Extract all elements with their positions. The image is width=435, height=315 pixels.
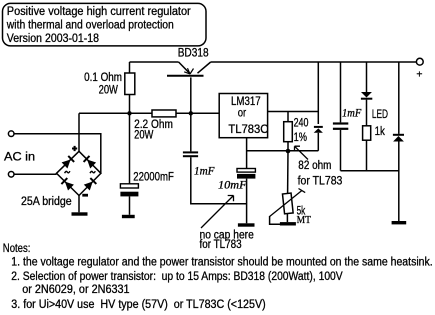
potentiometer P1 wiper wire	[270, 216, 287, 224]
label tilde right	[90, 171, 95, 173]
svg-text:1. the voltage regulator and t: 1. the voltage regulator and the power t…	[11, 254, 432, 268]
ground C2	[238, 223, 255, 226]
diode D3 output	[393, 62, 404, 221]
wire 22000mF branch	[129, 113, 131, 184]
resistor R3 240 lead bottom	[287, 142, 289, 151]
wire top rail left	[130, 61, 179, 63]
svg-text:20W: 20W	[134, 127, 154, 141]
resistor R3 240 lead top	[287, 112, 289, 122]
svg-text:or: or	[238, 105, 246, 119]
svg-text:1mF: 1mF	[194, 164, 215, 178]
arrow 82ohm pointer	[295, 146, 309, 159]
wire bottom rail	[341, 170, 399, 172]
wire adj line	[247, 150, 319, 152]
svg-text:22000mF: 22000mF	[133, 170, 174, 184]
svg-text:TL783C: TL783C	[228, 122, 268, 136]
svg-text:20W: 20W	[99, 83, 119, 97]
ground C1	[122, 215, 135, 218]
svg-text:for TL783: for TL783	[200, 237, 242, 251]
resistor R2 2.2 Ohm	[152, 110, 176, 117]
ground bridge	[72, 212, 88, 215]
svg-text:1%: 1%	[294, 130, 307, 144]
resistor R3 240	[284, 122, 293, 142]
ground P1	[280, 222, 296, 225]
resistor R4 1k lead	[366, 140, 368, 171]
potentiometer P1 lead bottom	[286, 213, 288, 222]
title box	[3, 3, 207, 46]
wire AC bottom	[14, 173, 57, 175]
wire input rail	[79, 112, 152, 114]
svg-text:or 2N6029, or 2N6331: or 2N6029, or 2N6331	[22, 282, 130, 296]
wire U1 vout	[268, 111, 319, 113]
node junction adj	[286, 149, 291, 154]
label minus bridge	[82, 194, 88, 197]
svg-text:+: +	[416, 68, 422, 80]
svg-text:1mF: 1mF	[342, 106, 362, 120]
bridge diode top-left	[62, 156, 75, 169]
svg-text:3. for Ui>40V use HV type (57: 3. for Ui>40V use HV type (57V) or TL783…	[11, 297, 265, 311]
resistor R4 1k	[363, 126, 371, 140]
potentiometer P1 wiper arrow	[270, 189, 306, 217]
output terminal +	[416, 58, 423, 65]
svg-text:25A bridge: 25A bridge	[21, 194, 72, 208]
resistor R1 0.1 Ohm lead bottom	[129, 95, 131, 114]
transistor Q1 BD318	[167, 62, 211, 113]
svg-text:Positive voltage high current: Positive voltage high current regulator	[7, 4, 191, 18]
svg-text:MT: MT	[297, 215, 311, 226]
LED D2	[361, 62, 372, 126]
label tilde left	[65, 171, 70, 173]
bridge diode top-right	[84, 156, 97, 169]
label plus bridge	[72, 146, 77, 151]
resistor R1 0.1 Ohm	[125, 73, 135, 95]
capacitor C2 10mF	[237, 169, 255, 224]
wire top rail right	[211, 61, 417, 63]
ground D3	[392, 221, 407, 224]
potentiometer P1 5k lead	[287, 151, 289, 194]
regulator U1 LM317 box	[219, 94, 267, 138]
bridge wire minus down	[78, 196, 80, 213]
bridge diode bottom-right	[84, 178, 97, 191]
svg-text:LED: LED	[372, 107, 388, 121]
svg-text:Notes:: Notes:	[3, 241, 31, 255]
terminal AC2	[8, 172, 14, 178]
node junction R1/rail	[127, 111, 131, 115]
capacitor C1 22000mF	[120, 184, 138, 215]
potentiometer P1 5k body	[282, 193, 293, 214]
svg-text:with thermal and overload prot: with thermal and overload protection	[6, 17, 174, 31]
wire vout up to rail	[317, 62, 319, 124]
svg-text:1k: 1k	[375, 124, 386, 138]
bridge wire plus up	[78, 113, 80, 151]
bridge B1 diamond	[57, 151, 101, 195]
terminal AC1	[8, 131, 14, 137]
arrow nocap pointer	[201, 196, 234, 229]
capacitor C3 1mF base	[183, 113, 247, 203]
node junction base/rail	[189, 111, 193, 115]
resistor R1 0.1 Ohm lead top	[129, 62, 131, 73]
wire input rail after R2	[176, 112, 219, 114]
svg-text:10mF: 10mF	[218, 177, 247, 191]
diode D1 adj-vout	[314, 127, 323, 151]
bridge diode bottom-left	[61, 178, 74, 191]
svg-text:Version 2003-01-18: Version 2003-01-18	[7, 31, 99, 45]
svg-text:82 ohm: 82 ohm	[298, 158, 331, 172]
svg-text:for TL783: for TL783	[298, 173, 343, 187]
wire AC top	[14, 134, 101, 174]
svg-text:2. Selection of power transist: 2. Selection of power transistor: up to …	[11, 269, 343, 283]
svg-text:240: 240	[294, 115, 309, 129]
capacitor C4 1mF out	[333, 62, 348, 171]
svg-text:BD318: BD318	[178, 46, 209, 60]
wire U1 adj pin	[246, 138, 248, 169]
svg-text:AC in: AC in	[4, 149, 35, 163]
